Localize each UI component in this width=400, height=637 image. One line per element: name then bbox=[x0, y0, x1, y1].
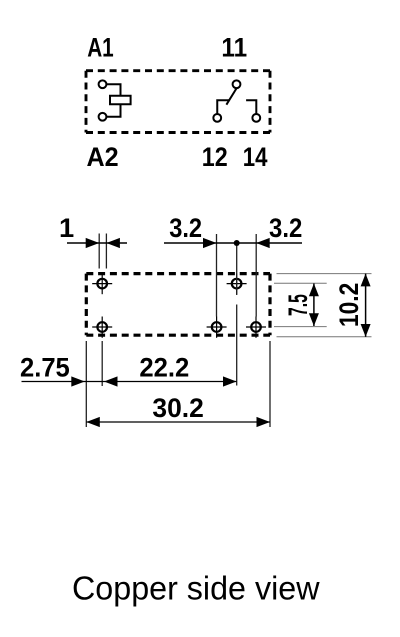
svg-text:1: 1 bbox=[59, 213, 74, 243]
dimension 3.2 extension line from hole 14 bbox=[255, 234, 257, 317]
coil terminal A1 bbox=[99, 80, 107, 88]
dimension 10.2 double arrow bbox=[361, 274, 371, 337]
svg-text:11: 11 bbox=[221, 32, 247, 62]
svg-text:30.2: 30.2 bbox=[152, 393, 203, 423]
bottom extension line right edge bbox=[269, 341, 271, 427]
right side reference line top hole row bbox=[274, 282, 327, 284]
svg-text:Copper side view: Copper side view bbox=[72, 570, 320, 607]
svg-text:2.75: 2.75 bbox=[20, 352, 70, 382]
svg-text:12: 12 bbox=[202, 142, 228, 172]
dimension 3.2 extension line from hole 11 bbox=[236, 243, 238, 386]
bottom extension line hole A2 column bbox=[101, 341, 103, 386]
wire A1 to coil bbox=[106, 84, 120, 96]
right side reference line top edge bbox=[277, 273, 372, 275]
svg-text:3.2: 3.2 bbox=[169, 213, 202, 243]
dimension 2.75 and 22.2 line with arrows bbox=[22, 376, 237, 386]
wire 14 contact bar bbox=[246, 100, 256, 114]
hole 14 bottom-right bbox=[246, 317, 266, 338]
hole 11 top-right bbox=[227, 273, 247, 294]
dimension 1 line with arrows bbox=[67, 238, 127, 248]
bottom extension line left edge bbox=[85, 341, 87, 427]
contact terminal 14 bbox=[252, 114, 260, 122]
dimension 3.2 line with arrows and junction dot bbox=[164, 238, 302, 248]
svg-text:3.2: 3.2 bbox=[269, 213, 302, 243]
hole A2 bottom-left bbox=[92, 317, 112, 338]
svg-text:22.2: 22.2 bbox=[139, 352, 189, 382]
wire coil to A2 bbox=[106, 104, 120, 117]
svg-text:7.5: 7.5 bbox=[283, 294, 313, 316]
hole 12 bottom-middle bbox=[207, 317, 227, 338]
dimension 30.2 line with arrows bbox=[86, 417, 270, 427]
dimension 1 extension lines bbox=[99, 234, 106, 269]
svg-text:14: 14 bbox=[243, 142, 268, 172]
right side reference line bottom edge bbox=[277, 336, 372, 338]
dimension 7.5 double arrow bbox=[309, 284, 319, 327]
coil terminal A2 bbox=[99, 113, 107, 121]
PCB outline dashed box (copper side) bbox=[86, 274, 270, 336]
contact terminal 11 bbox=[233, 80, 241, 88]
right side reference line bottom hole row bbox=[274, 326, 327, 328]
hole A1 top-left bbox=[92, 273, 112, 294]
svg-text:A2: A2 bbox=[87, 142, 119, 172]
switch blade 11-12 bbox=[226, 88, 236, 104]
relay outline dashed box (schematic) bbox=[86, 71, 270, 133]
dimension 3.2 extension line from hole 12 bbox=[216, 234, 218, 317]
svg-text:A1: A1 bbox=[87, 32, 114, 62]
coil K1 bbox=[110, 96, 131, 105]
wire 12 contact bar bbox=[217, 100, 229, 114]
contact terminal 12 bbox=[213, 114, 221, 122]
svg-text:10.2: 10.2 bbox=[334, 283, 364, 327]
